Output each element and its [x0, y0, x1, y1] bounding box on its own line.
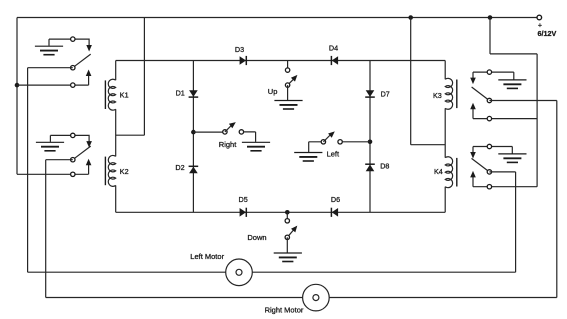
switch S3 common terminal — [487, 98, 491, 102]
wire S1 common down to left motor line — [27, 68, 29, 273]
svg-text:K3: K3 — [433, 91, 442, 100]
label Up — [268, 87, 278, 96]
diode D5 — [239, 195, 248, 217]
wire K4 bottom stem — [444, 187, 446, 213]
svg-text:D4: D4 — [329, 44, 338, 53]
node Down switch junction — [285, 210, 290, 215]
switch S3 blade — [472, 87, 489, 100]
switch S2 lower terminal — [71, 172, 75, 176]
ground S2 upper throw — [36, 135, 73, 150]
wire Up switch stem — [287, 61, 289, 71]
switch S3 lower terminal — [487, 116, 491, 120]
svg-text:D3: D3 — [235, 45, 244, 54]
switch Up lower terminal — [285, 83, 289, 87]
diode D4 — [329, 44, 338, 66]
wire S4 common to left motor line — [489, 172, 515, 272]
ground Right switch — [242, 132, 270, 151]
svg-text:Up: Up — [268, 87, 278, 96]
svg-text:K2: K2 — [120, 167, 129, 176]
wire S4 lower throw — [470, 171, 537, 187]
switch S4 blade — [472, 158, 489, 171]
switch S1 lower terminal — [71, 83, 75, 87]
wire S2 common down to right motor line — [45, 160, 47, 298]
ground S3 upper throw — [489, 72, 526, 88]
wire S1 lower throw — [17, 70, 91, 86]
wire K3-K4 link — [444, 108, 446, 157]
wire D1-D2 column — [192, 61, 194, 213]
switch S2 common terminal — [71, 158, 75, 162]
label Left — [327, 150, 340, 159]
switch S1 upper terminal — [71, 37, 75, 41]
switch Down lower terminal — [285, 235, 289, 239]
diode D2 — [175, 163, 198, 173]
wire bridge bottom rail — [116, 211, 446, 213]
switch Up blade — [288, 75, 298, 85]
switch S1 common terminal — [71, 66, 75, 70]
wire S3 lower throw — [470, 103, 537, 119]
switch S1 blade — [73, 54, 90, 67]
svg-text:D2: D2 — [175, 163, 184, 172]
switch S4 lower terminal — [487, 185, 491, 189]
node top rail +V branch — [488, 15, 493, 20]
node D7-D8 junction — [368, 140, 373, 145]
switch Up upper terminal — [285, 68, 289, 72]
switch S3 upper terminal — [487, 70, 491, 74]
switch S4 common terminal — [487, 170, 491, 174]
wire S1 common to left — [28, 67, 73, 69]
motor Left Motor — [190, 252, 252, 286]
switch Down upper terminal — [285, 219, 289, 223]
label Down — [247, 233, 266, 242]
wire S3 upper throw arrow — [470, 72, 489, 84]
switch Left blade — [323, 131, 334, 141]
switch Left left terminal — [321, 140, 325, 144]
svg-text:D1: D1 — [176, 89, 185, 98]
wire top rail to coil midpoint — [411, 18, 446, 145]
svg-text:D5: D5 — [239, 195, 248, 204]
switch Left right terminal — [338, 140, 342, 144]
diode D1 — [176, 89, 199, 98]
switch S2 blade — [73, 146, 90, 159]
relay coil K1 — [105, 79, 128, 110]
wire top +V rail — [17, 17, 539, 19]
svg-text:6/12V: 6/12V — [538, 29, 557, 38]
switch S4 upper terminal — [487, 144, 491, 148]
wire left motor line — [28, 271, 516, 273]
switch Right right terminal — [239, 130, 243, 134]
wire S2 upper throw arrow — [73, 135, 92, 147]
node top rail to K3-K4 midpoint — [408, 15, 413, 20]
switch Right blade — [225, 122, 236, 132]
svg-text:Left Motor: Left Motor — [190, 252, 224, 261]
wire S4 upper throw arrow — [470, 147, 489, 159]
svg-text:Right Motor: Right Motor — [265, 306, 304, 315]
motor Right Motor — [265, 284, 330, 314]
wire K3 top stem — [444, 61, 446, 80]
svg-text:Down: Down — [247, 233, 266, 242]
diode D6 — [331, 195, 340, 217]
wire S2 lower throw — [17, 159, 91, 175]
ground Up switch — [274, 85, 302, 109]
wire node to Right switch — [193, 131, 223, 133]
switch Right left terminal — [223, 130, 227, 134]
wire left bus vertical — [16, 18, 18, 175]
wire Down switch stem — [286, 212, 288, 221]
svg-text:K1: K1 — [120, 90, 129, 99]
ground S1 upper throw — [35, 39, 73, 55]
diode D3 — [235, 45, 246, 65]
wire +V branch to S3/S4 throws — [490, 18, 537, 187]
node +6/12V supply terminal — [537, 15, 556, 38]
ground Left switch — [294, 142, 322, 161]
wire Left switch to node — [342, 141, 370, 143]
svg-text:K4: K4 — [434, 167, 443, 176]
wire D7-D8 column — [369, 61, 371, 213]
relay coil K4 — [434, 157, 457, 188]
wire K1 top stem — [115, 61, 117, 81]
ground S4 upper throw — [489, 147, 526, 163]
svg-text:D8: D8 — [380, 162, 389, 171]
svg-text:Left: Left — [327, 150, 340, 159]
label Right — [219, 140, 237, 149]
wire right motor line — [46, 297, 557, 299]
svg-text:Right: Right — [219, 140, 237, 149]
wire coil midpoint to top rail — [116, 18, 145, 136]
wire S1 upper throw arrow — [73, 39, 92, 51]
ground Down switch — [274, 237, 302, 261]
node junction left bus / S1 lower throw — [15, 83, 20, 88]
wire S3 common down to right motor line — [556, 101, 558, 298]
wire K1-K2 link — [115, 109, 117, 156]
switch S2 upper terminal — [71, 133, 75, 137]
svg-text:D6: D6 — [331, 195, 340, 204]
diode D7 — [365, 90, 390, 99]
diode D8 — [365, 162, 389, 172]
node D1-D2 junction — [191, 130, 196, 135]
wire K2 bottom stem — [115, 185, 117, 212]
relay coil K3 — [433, 78, 457, 109]
wire S3 common to right — [489, 100, 556, 102]
relay coil K2 — [105, 155, 128, 186]
svg-text:D7: D7 — [381, 90, 390, 99]
wire S2 common to left — [46, 159, 73, 161]
wire bridge top rail — [116, 60, 446, 62]
switch Down blade — [287, 226, 297, 238]
